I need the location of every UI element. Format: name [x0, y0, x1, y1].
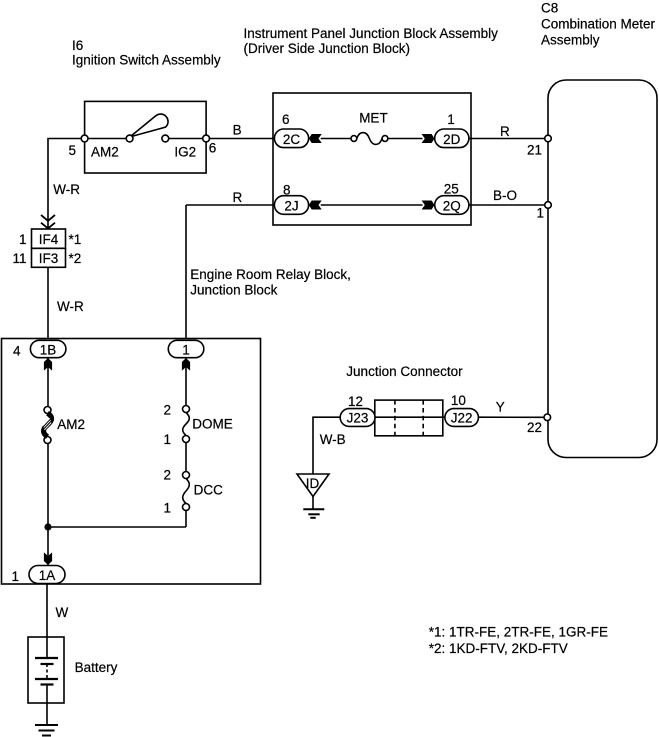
svg-text:2: 2	[163, 403, 171, 418]
svg-text:Combination Meter: Combination Meter	[541, 17, 656, 32]
svg-text:8: 8	[283, 182, 291, 197]
svg-text:4: 4	[13, 344, 21, 359]
svg-text:*1: 1TR-FE, 2TR-FE, 1GR-FE: *1: 1TR-FE, 2TR-FE, 1GR-FE	[429, 624, 608, 639]
svg-text:(Driver Side Junction Block): (Driver Side Junction Block)	[244, 41, 411, 56]
svg-text:Engine Room Relay Block,: Engine Room Relay Block,	[190, 267, 351, 282]
svg-text:6: 6	[209, 140, 217, 155]
svg-text:Assembly: Assembly	[541, 33, 600, 48]
svg-text:DOME: DOME	[192, 417, 233, 432]
svg-text:W-R: W-R	[53, 182, 80, 197]
svg-text:12: 12	[348, 394, 363, 409]
svg-text:2J: 2J	[284, 198, 298, 213]
svg-text:2D: 2D	[443, 132, 461, 147]
svg-text:B-O: B-O	[493, 188, 517, 203]
svg-text:1: 1	[182, 342, 190, 357]
svg-text:25: 25	[444, 181, 459, 196]
svg-text:ID: ID	[306, 476, 320, 491]
svg-text:10: 10	[451, 393, 466, 408]
svg-text:*2: *2	[69, 251, 82, 266]
svg-text:22: 22	[527, 420, 542, 435]
svg-text:1: 1	[163, 432, 171, 447]
svg-text:2: 2	[163, 467, 171, 482]
svg-text:5: 5	[69, 143, 77, 158]
svg-text:W-B: W-B	[320, 432, 346, 447]
svg-text:1: 1	[11, 569, 19, 584]
svg-text:*1: *1	[69, 232, 82, 247]
svg-text:C8: C8	[541, 1, 558, 16]
svg-text:Battery: Battery	[75, 660, 118, 675]
svg-text:2Q: 2Q	[443, 198, 461, 213]
svg-text:21: 21	[527, 142, 542, 157]
svg-text:Junction Connector: Junction Connector	[346, 364, 463, 379]
svg-text:MET: MET	[359, 111, 388, 126]
svg-text:I6: I6	[72, 38, 83, 53]
svg-text:R: R	[233, 190, 243, 205]
svg-text:1: 1	[163, 501, 171, 516]
svg-text:*2: 1KD-FTV, 2KD-FTV: *2: 1KD-FTV, 2KD-FTV	[429, 641, 568, 656]
svg-text:AM2: AM2	[91, 144, 119, 159]
svg-text:Y: Y	[496, 400, 505, 415]
svg-text:IF4: IF4	[39, 232, 59, 247]
svg-text:J23: J23	[347, 411, 369, 426]
svg-text:1: 1	[537, 206, 545, 221]
svg-text:Junction Block: Junction Block	[190, 283, 277, 298]
svg-text:2C: 2C	[283, 132, 301, 147]
svg-text:AM2: AM2	[57, 417, 85, 432]
svg-text:R: R	[500, 124, 510, 139]
svg-text:Instrument Panel Junction Bloc: Instrument Panel Junction Block Assembly	[244, 26, 499, 41]
svg-text:1B: 1B	[40, 342, 57, 357]
svg-text:1: 1	[19, 232, 27, 247]
svg-text:11: 11	[12, 251, 26, 266]
svg-text:IG2: IG2	[174, 144, 196, 159]
svg-text:W-R: W-R	[57, 299, 84, 314]
svg-text:W: W	[56, 605, 69, 620]
svg-text:6: 6	[282, 112, 290, 127]
svg-text:DCC: DCC	[194, 483, 223, 498]
svg-text:1: 1	[447, 112, 455, 127]
svg-text:Ignition Switch Assembly: Ignition Switch Assembly	[72, 53, 221, 68]
svg-text:J22: J22	[451, 411, 473, 426]
svg-text:IF3: IF3	[39, 251, 59, 266]
svg-text:B: B	[233, 123, 242, 138]
svg-text:1A: 1A	[39, 568, 56, 583]
